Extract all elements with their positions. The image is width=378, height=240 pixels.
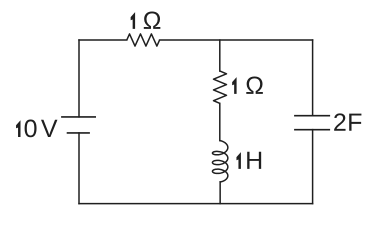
battery V1 long plate (+): [62, 116, 95, 118]
wire left rail upper (to battery + plate): [78, 40, 80, 117]
capacitor C1 bottom plate: [295, 129, 329, 131]
wire top-left segment: [79, 39, 127, 41]
wire top-right segment (through top junction): [160, 39, 313, 41]
label "F" of "2 F" (capacitor): [349, 114, 361, 131]
label digit 1 of "1 ohm" (top resistor): [131, 12, 135, 29]
wire middle rail lower (inductor to bottom junction): [219, 182, 221, 204]
battery V1 short plate (-): [68, 132, 90, 134]
capacitor C1 top plate: [295, 115, 329, 117]
wire middle rail upper (top junction to resistor): [219, 40, 221, 71]
resistor R1 (1 ohm, top): [127, 34, 160, 46]
wire right rail upper (to capacitor): [312, 40, 314, 116]
wire bottom: [79, 203, 313, 205]
label digit 1 of "10 V" (battery): [16, 120, 20, 137]
label digit 1 of "1 ohm" (middle resistor): [232, 77, 236, 94]
label digit 1 of "1H" (inductor): [236, 152, 240, 169]
wire right rail lower (capacitor to bottom): [312, 130, 314, 204]
resistor R2 (1 ohm, middle): [214, 71, 227, 103]
label omega of "1 ohm" (middle resistor): [246, 76, 263, 93]
label omega of "1 ohm" (top resistor): [144, 11, 161, 28]
label "V" of "10 V" (battery): [41, 120, 57, 137]
label "2" of "2 F" (capacitor): [334, 113, 345, 130]
label "0" of "10 V" (battery): [25, 120, 37, 138]
label "H" of "1H" (inductor): [247, 152, 261, 169]
wire middle between resistor and inductor: [219, 103, 221, 140]
wire left rail lower (battery - to bottom): [78, 133, 80, 204]
inductor L1 (1 H): [212, 141, 227, 182]
